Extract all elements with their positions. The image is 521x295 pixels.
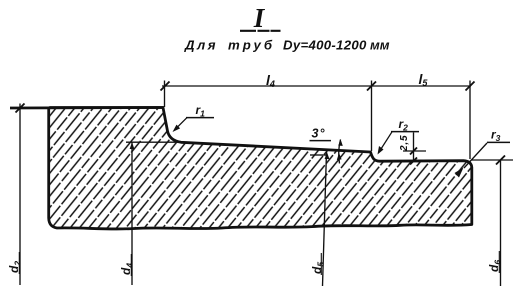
svg-text:d5: d5 (310, 262, 326, 274)
svg-text:d6: d6 (487, 260, 503, 272)
svg-text:I: I (253, 3, 266, 33)
svg-text:3°: 3° (312, 127, 326, 141)
svg-text:r1: r1 (196, 103, 206, 119)
svg-text:d2: d2 (7, 261, 23, 273)
svg-text:r3: r3 (491, 128, 501, 144)
svg-text:2,5: 2,5 (399, 135, 410, 152)
svg-text:l5: l5 (419, 71, 429, 88)
svg-text:d4: d4 (119, 263, 135, 275)
svg-text:ДлятрубDy=400-1200мм: ДлятрубDy=400-1200мм (184, 38, 390, 53)
svg-text:r2: r2 (399, 117, 409, 133)
svg-text:l4: l4 (266, 72, 275, 89)
